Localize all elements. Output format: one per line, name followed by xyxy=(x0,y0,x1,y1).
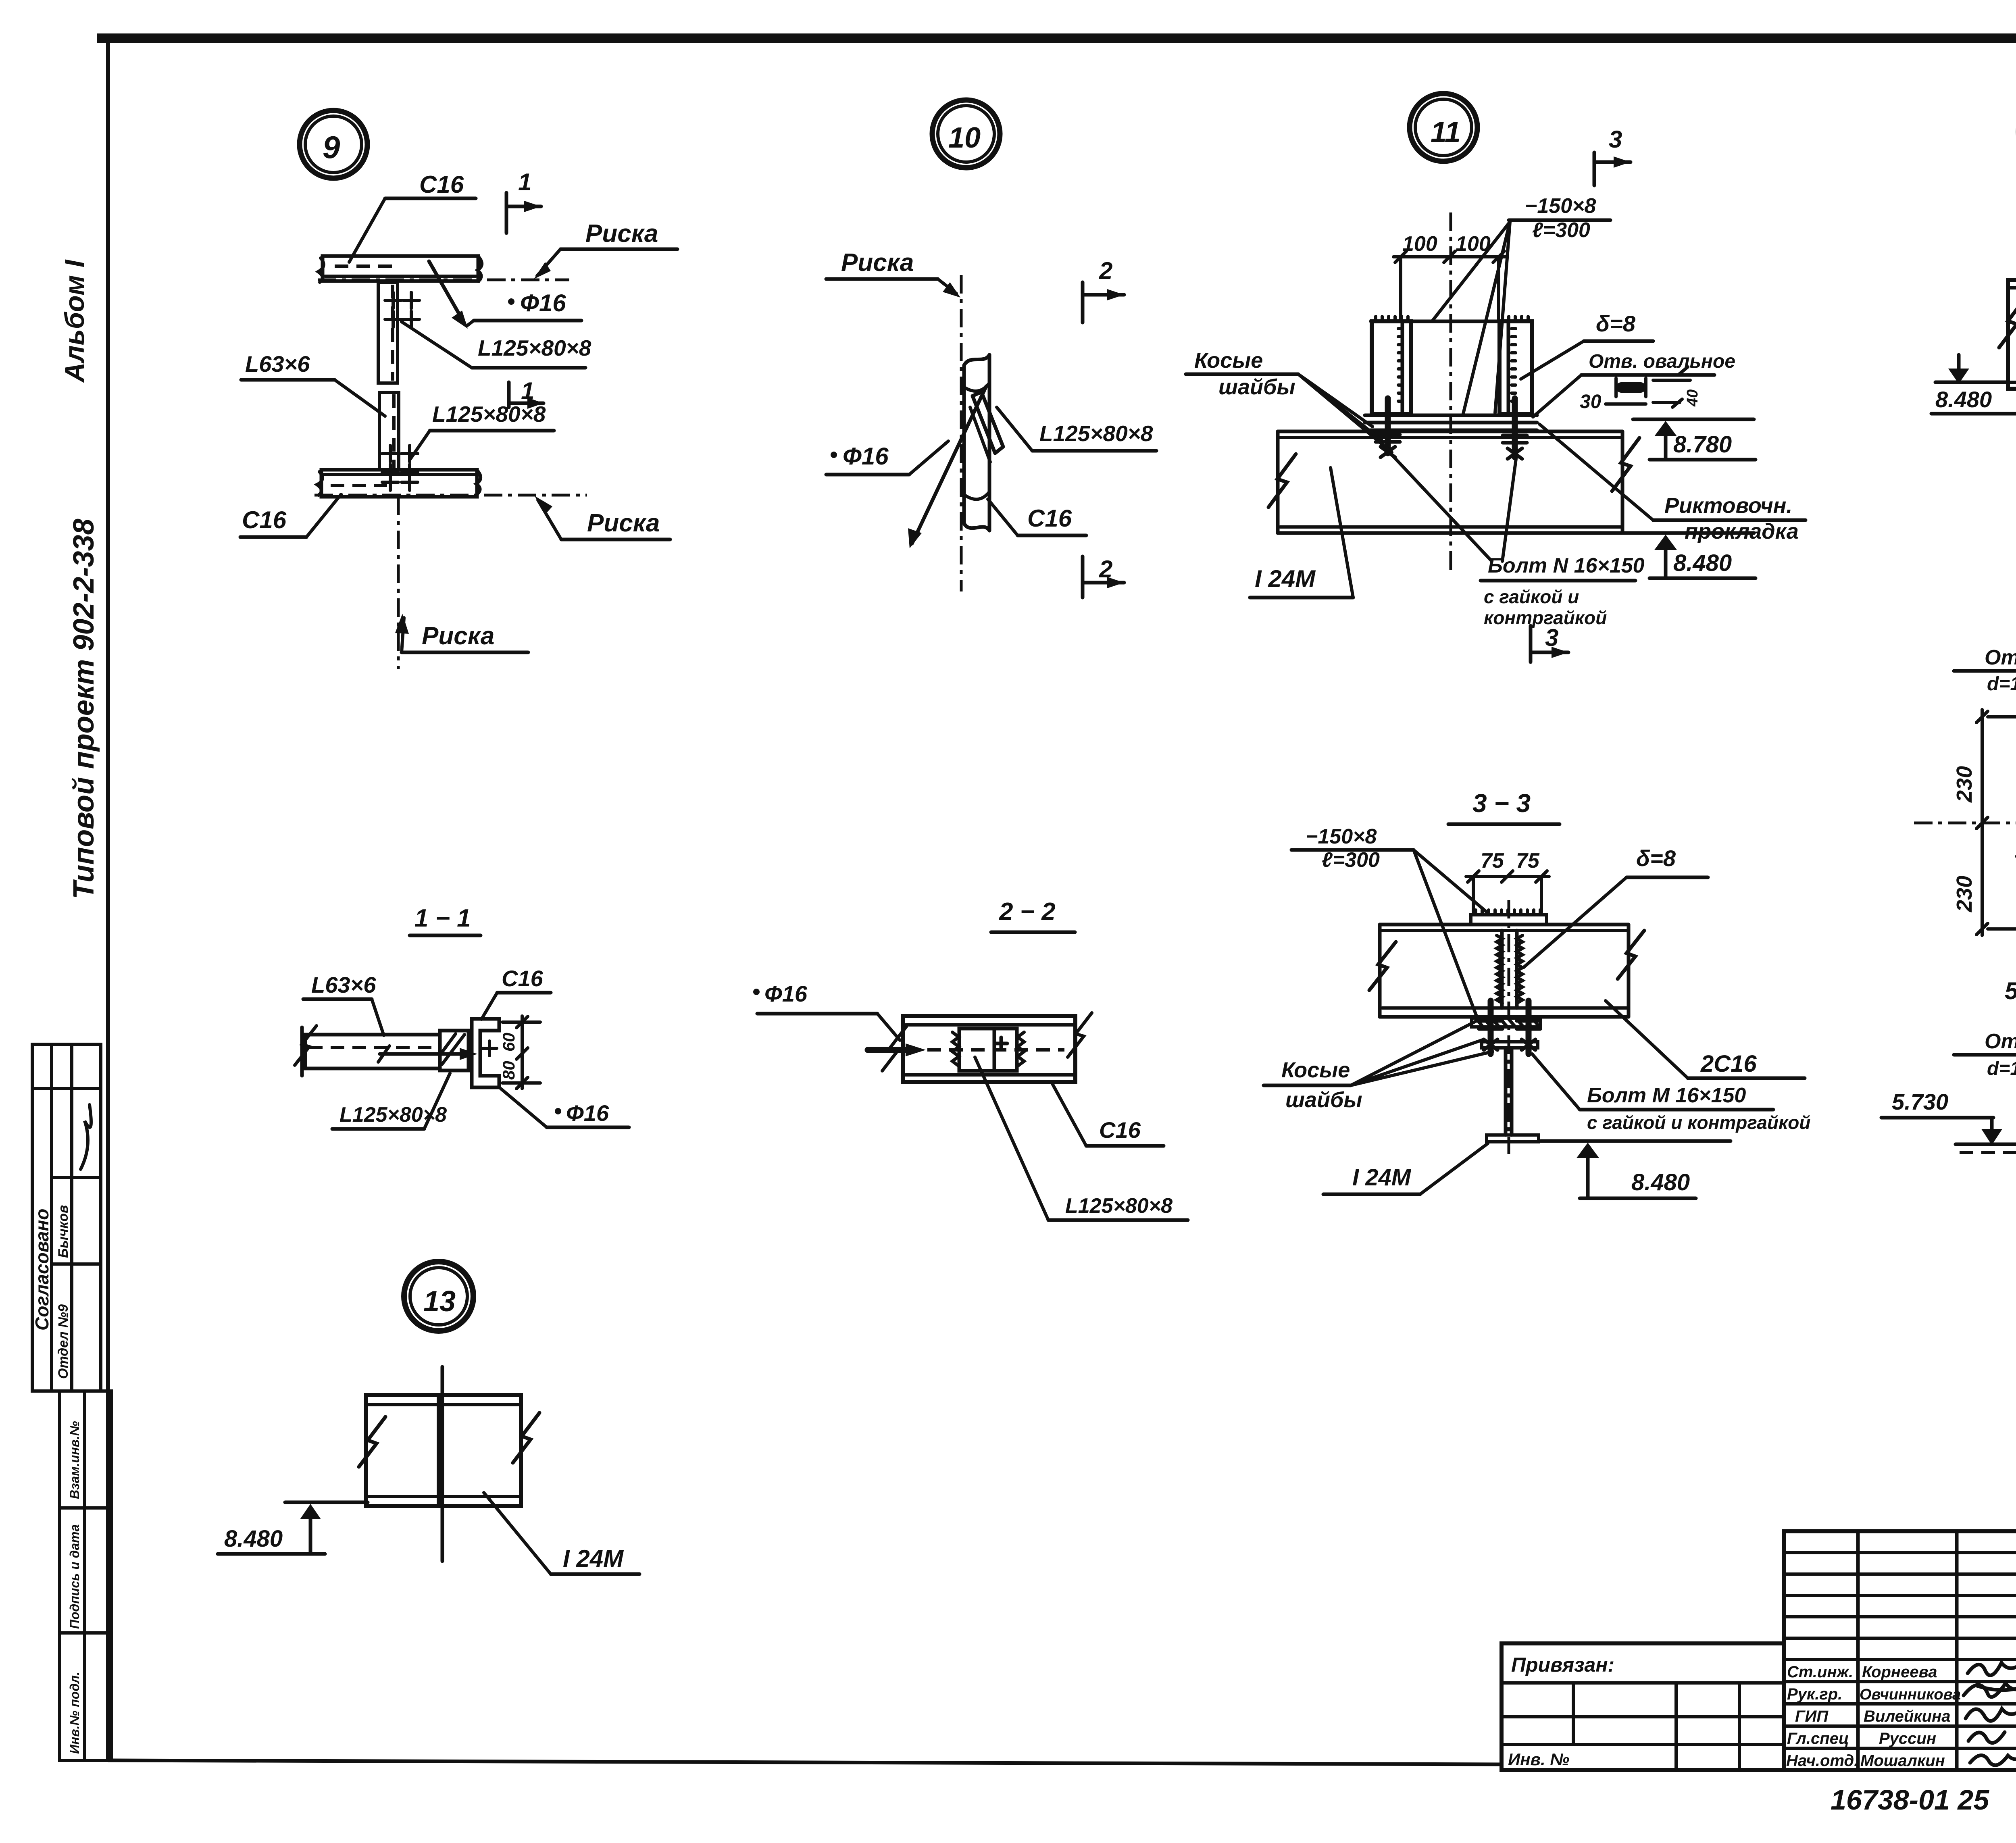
svg-text:с гайкой и контргайкой: с гайкой и контргайкой xyxy=(1587,1112,1811,1133)
title block xyxy=(1502,1531,2016,1826)
web upper part with angles xyxy=(378,282,398,383)
svg-text:Вилейкина: Вилейкина xyxy=(1864,1708,1950,1725)
svg-text:Отв. овальное: Отв. овальное xyxy=(1589,351,1735,372)
svg-text:230: 230 xyxy=(1952,876,1976,912)
bolts under beam xyxy=(1488,1001,1494,1054)
svg-text:40: 40 xyxy=(1684,389,1701,407)
vertical centerline xyxy=(397,497,400,669)
svg-text:8.480: 8.480 xyxy=(224,1526,283,1552)
svg-text:С16: С16 xyxy=(502,966,544,991)
section mark 3 bottom xyxy=(1529,626,1533,662)
horizontal centerline xyxy=(1914,822,2016,825)
elevation 8.480 xyxy=(1541,1139,1731,1143)
web lower part xyxy=(379,392,399,470)
soglasovano table xyxy=(32,1044,101,1391)
bottom flange channel C16 plan xyxy=(321,470,477,497)
center web with weld springs xyxy=(1500,931,1504,1008)
beam top line xyxy=(1956,1143,2016,1146)
svg-text:Подпись и дата: Подпись и дата xyxy=(67,1524,82,1629)
svg-text:d=14: d=14 xyxy=(1987,673,2016,695)
svg-text:16738-01 25: 16738-01 25 xyxy=(1831,1784,1989,1816)
svg-text:Ф16: Ф16 xyxy=(764,981,808,1006)
svg-text:с гайкой и: с гайкой и xyxy=(1484,586,1579,607)
I24M beam xyxy=(1278,430,1622,433)
svg-text:3 − 3: 3 − 3 xyxy=(1472,789,1531,818)
svg-text:L125×80×8: L125×80×8 xyxy=(1039,421,1153,446)
svg-text:Ф16: Ф16 xyxy=(843,443,889,470)
svg-text:ГИП: ГИП xyxy=(1795,1708,1829,1725)
right bolt xyxy=(1512,398,1518,457)
label f16 xyxy=(753,989,760,995)
svg-text:ℓ=300: ℓ=300 xyxy=(1322,848,1380,872)
svg-text:I 24М: I 24М xyxy=(1352,1164,1412,1191)
riska dash-dot bottom xyxy=(314,494,587,497)
svg-text:2: 2 xyxy=(1099,556,1112,583)
svg-text:С16: С16 xyxy=(1099,1117,1141,1143)
svg-text:2С16: 2С16 xyxy=(1700,1051,1757,1077)
svg-text:L63×6: L63×6 xyxy=(245,351,310,377)
top flange channel C16 plan xyxy=(323,256,478,281)
svg-text:Нач.отд.: Нач.отд. xyxy=(1786,1752,1858,1770)
svg-text:Альбом I: Альбом I xyxy=(59,259,90,383)
svg-text:13: 13 xyxy=(423,1285,456,1318)
lower margin strip xyxy=(60,1391,111,1760)
section 2-2 xyxy=(753,898,1188,1220)
section 3-3 xyxy=(1264,789,1811,1198)
weld plus marks lower xyxy=(382,446,418,490)
svg-text:Отв.: Отв. xyxy=(1985,646,2016,669)
riska dash-dot top xyxy=(318,279,569,281)
section mark 2 bottom xyxy=(1081,556,1085,598)
left dim 230/230 xyxy=(1981,710,1984,935)
lower plate hatched xyxy=(1472,1018,1541,1027)
bar L63x6 top view xyxy=(305,1035,440,1068)
svg-text:Риктовочн.: Риктовочн. xyxy=(1664,494,1792,518)
suspended I24M xyxy=(1482,1042,1538,1048)
detail circle 9 xyxy=(300,110,367,178)
bracket left channel xyxy=(1372,321,1411,414)
svg-text:Ф16: Ф16 xyxy=(520,289,566,317)
beam 2C16 body xyxy=(1380,923,1629,927)
svg-text:Типовой проект 902-2-338: Типовой проект 902-2-338 xyxy=(68,519,100,899)
svg-text:Руссин: Руссин xyxy=(1879,1730,1936,1747)
I24M joint plan xyxy=(366,1395,521,1506)
svg-text:L125×80×8: L125×80×8 xyxy=(478,335,591,360)
svg-text:3: 3 xyxy=(1609,126,1622,153)
svg-text:Болт М 16×150: Болт М 16×150 xyxy=(1587,1084,1746,1107)
svg-text:Отв.: Отв. xyxy=(1985,1030,2016,1053)
svg-text:Овчинникова: Овчинникова xyxy=(1860,1686,1961,1703)
svg-text:1 − 1: 1 − 1 xyxy=(414,904,471,932)
svg-text:Рук.гр.: Рук.гр. xyxy=(1787,1685,1842,1703)
plate under bracket xyxy=(1365,414,1537,417)
left bolt xyxy=(1385,398,1391,453)
svg-text:8.780: 8.780 xyxy=(1673,431,1732,458)
centerline xyxy=(1508,900,1510,1154)
svg-text:d=14: d=14 xyxy=(1987,1058,2016,1079)
svg-text:30: 30 xyxy=(1580,391,1602,412)
svg-text:Согласовано: Согласовано xyxy=(31,1209,52,1331)
svg-text:2 − 2: 2 − 2 xyxy=(999,898,1056,926)
plate inside with welds xyxy=(959,1029,1017,1071)
angle L125x80x8 inside xyxy=(973,392,1003,453)
svg-text:Привязан:: Привязан: xyxy=(1511,1653,1614,1676)
plate L125x80x8 end xyxy=(440,1031,469,1070)
svg-text:Взам.инв.№: Взам.инв.№ xyxy=(67,1421,82,1499)
svg-text:Косые: Косые xyxy=(1281,1058,1350,1082)
top plate with hatch xyxy=(1471,915,1547,925)
channel piece side view xyxy=(964,355,989,531)
centerline xyxy=(1450,212,1452,573)
elevation 8.480 det11 xyxy=(1622,531,1754,535)
svg-text:Риска: Риска xyxy=(587,509,660,537)
svg-text:9: 9 xyxy=(323,129,340,165)
svg-text:шайбы: шайбы xyxy=(1285,1088,1362,1112)
svg-text:Ст.инж.: Ст.инж. xyxy=(1787,1663,1853,1681)
privyazan table xyxy=(1502,1643,1784,1770)
label f16 xyxy=(555,1108,561,1114)
channel C16 section xyxy=(472,1019,499,1087)
svg-text:100: 100 xyxy=(1456,232,1491,256)
section mark 3 top xyxy=(1593,152,1596,185)
svg-text:5.730: 5.730 xyxy=(1892,1089,1948,1114)
weld plus marks upper xyxy=(385,292,419,327)
svg-text:L125×80×8: L125×80×8 xyxy=(432,402,546,427)
svg-text:δ=8: δ=8 xyxy=(1596,311,1636,336)
section 5-5 xyxy=(1881,1009,2016,1376)
section mark 1 top xyxy=(505,193,508,233)
svg-text:8.480: 8.480 xyxy=(1631,1169,1690,1195)
svg-text:10: 10 xyxy=(948,122,981,154)
svg-text:δ=8: δ=8 xyxy=(1636,845,1676,871)
detail circle 13 xyxy=(404,1262,473,1331)
svg-text:I 24М: I 24М xyxy=(563,1545,624,1572)
svg-text:1: 1 xyxy=(518,169,531,196)
svg-text:60: 60 xyxy=(499,1033,518,1052)
svg-text:11: 11 xyxy=(1431,116,1461,148)
channel C16 top view xyxy=(903,1016,1075,1082)
svg-text:С16: С16 xyxy=(242,506,287,533)
detail 14 xyxy=(1914,605,2016,1079)
svg-text:1: 1 xyxy=(521,377,534,404)
svg-text:Гл.спец: Гл.спец xyxy=(1787,1730,1849,1747)
I beam plan view xyxy=(2008,280,2016,389)
bolt hole arrow f16 xyxy=(429,261,464,323)
svg-text:3: 3 xyxy=(1545,624,1558,651)
svg-text:ℓ=300: ℓ=300 xyxy=(1532,219,1590,242)
svg-text:С16: С16 xyxy=(1027,505,1072,532)
elevation 8.480 xyxy=(285,1501,368,1504)
detail circle 10 xyxy=(932,100,1000,168)
svg-text:Инв.№ подл.: Инв.№ подл. xyxy=(67,1672,82,1754)
svg-text:Риска: Риска xyxy=(422,622,494,650)
detail 12 xyxy=(1931,98,2016,535)
bolt axis arrow xyxy=(380,1052,471,1056)
svg-text:Мошалкин: Мошалкин xyxy=(1860,1752,1945,1770)
svg-text:L63×6: L63×6 xyxy=(311,972,376,998)
bolt arrow entering xyxy=(868,1047,915,1053)
svg-text:8.480: 8.480 xyxy=(1935,387,1992,412)
svg-text:Риска: Риска xyxy=(841,249,914,277)
svg-text:Корнеева: Корнеева xyxy=(1862,1663,1937,1681)
detail 13 xyxy=(218,1262,639,1574)
svg-text:80: 80 xyxy=(499,1061,518,1080)
svg-text:8.480: 8.480 xyxy=(1673,550,1732,576)
svg-text:Инв. №: Инв. № xyxy=(1508,1750,1569,1769)
svg-text:Косые: Косые xyxy=(1194,348,1263,373)
signatures squiggles xyxy=(1968,1663,2016,1675)
dim 80/80 right xyxy=(521,1016,524,1089)
svg-text:Отдел №9: Отдел №9 xyxy=(56,1304,71,1379)
staff table grid xyxy=(1784,1531,2016,1770)
svg-text:75: 75 xyxy=(1516,849,1540,873)
bolt arrow f16 xyxy=(912,386,986,544)
svg-text:230: 230 xyxy=(1952,766,1976,803)
svg-text:Бычков: Бычков xyxy=(56,1205,71,1258)
svg-text:−150×8: −150×8 xyxy=(1306,825,1377,848)
svg-text:L125×80×8: L125×80×8 xyxy=(1065,1194,1173,1218)
elevation 8.780 xyxy=(1633,418,1754,421)
bracket top line xyxy=(1371,320,1532,323)
left margin texts xyxy=(59,259,100,899)
detail 9 xyxy=(240,110,677,669)
svg-text:−150×8: −150×8 xyxy=(1525,194,1596,218)
svg-text:Болт N 16×150: Болт N 16×150 xyxy=(1488,554,1645,577)
riska centerline vertical xyxy=(960,275,963,591)
detail 11 xyxy=(1186,94,1806,662)
detail circle 11 xyxy=(1410,94,1477,161)
section mark 1 lower xyxy=(507,382,511,407)
svg-text:шайбы: шайбы xyxy=(1218,375,1295,399)
dashed bolt centerline xyxy=(927,1048,1064,1052)
svg-text:С16: С16 xyxy=(419,171,464,198)
detail 10 xyxy=(826,100,1156,598)
svg-text:2: 2 xyxy=(1099,257,1112,284)
svg-text:I 24М: I 24М xyxy=(1255,565,1316,592)
svg-text:Ф16: Ф16 xyxy=(566,1100,609,1126)
svg-text:Риска: Риска xyxy=(585,220,658,248)
elevation 8.480 left xyxy=(1935,381,2008,384)
svg-text:5: 5 xyxy=(2005,977,2016,1004)
bracket right channel xyxy=(1500,321,1532,414)
section mark 2 top xyxy=(1081,282,1085,323)
section 1-1 xyxy=(295,904,629,1129)
svg-text:75: 75 xyxy=(1481,849,1504,873)
left margin stamp tables xyxy=(31,1044,111,1760)
